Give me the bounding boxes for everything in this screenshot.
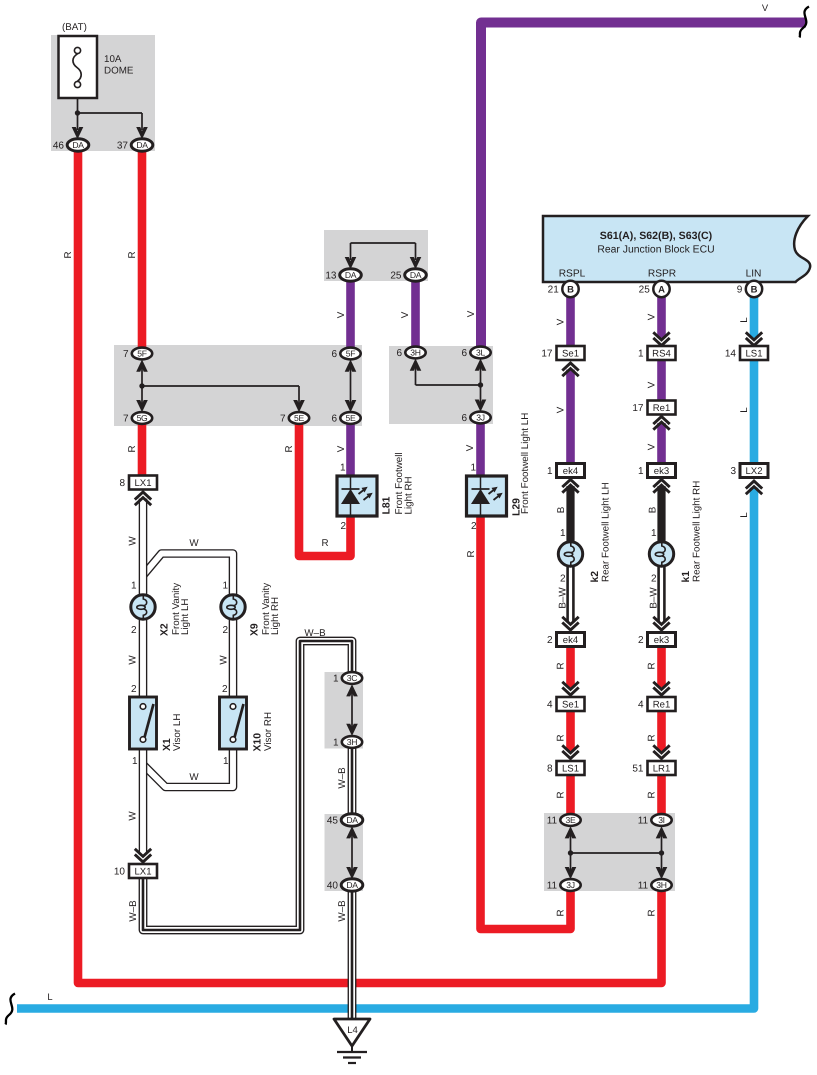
svg-text:W: W xyxy=(128,655,139,665)
svg-text:V: V xyxy=(465,444,476,451)
svg-text:1: 1 xyxy=(222,581,228,592)
svg-text:6: 6 xyxy=(397,348,403,359)
svg-text:W: W xyxy=(189,772,199,783)
svg-text:R: R xyxy=(556,662,567,669)
svg-text:Visor RH: Visor RH xyxy=(263,712,274,751)
svg-text:2: 2 xyxy=(651,574,657,585)
svg-text:V: V xyxy=(556,406,567,413)
svg-text:V: V xyxy=(647,313,658,320)
svg-text:11: 11 xyxy=(638,816,649,827)
svg-text:W–B: W–B xyxy=(337,767,348,789)
svg-text:R: R xyxy=(127,445,138,452)
svg-text:L: L xyxy=(739,317,750,323)
svg-text:3L: 3L xyxy=(476,348,485,358)
svg-text:3: 3 xyxy=(730,466,736,477)
svg-text:LS1: LS1 xyxy=(745,348,762,359)
svg-text:R: R xyxy=(647,791,658,798)
svg-text:DA: DA xyxy=(72,140,84,150)
svg-text:R: R xyxy=(647,909,658,916)
svg-text:1: 1 xyxy=(470,463,476,474)
svg-text:R: R xyxy=(127,251,138,258)
svg-text:46: 46 xyxy=(53,141,65,152)
svg-text:2: 2 xyxy=(222,684,228,695)
svg-text:1: 1 xyxy=(340,463,346,474)
svg-text:Se1: Se1 xyxy=(562,699,579,710)
svg-text:L81: L81 xyxy=(382,496,393,514)
svg-text:11: 11 xyxy=(638,881,649,892)
svg-text:1: 1 xyxy=(560,528,566,539)
svg-text:5E: 5E xyxy=(294,413,304,423)
svg-text:4: 4 xyxy=(638,700,644,711)
svg-text:LS1: LS1 xyxy=(562,763,579,774)
svg-text:Rear Footwell Light LH: Rear Footwell Light LH xyxy=(600,482,611,582)
svg-text:L: L xyxy=(47,991,52,1002)
svg-text:Rear Footwell Light RH: Rear Footwell Light RH xyxy=(691,481,702,582)
svg-text:LIN: LIN xyxy=(746,269,762,280)
svg-text:14: 14 xyxy=(725,349,737,360)
svg-text:X1: X1 xyxy=(162,738,173,751)
svg-text:R: R xyxy=(321,538,328,549)
svg-text:Light RH: Light RH xyxy=(404,476,415,514)
svg-text:B: B xyxy=(556,506,567,513)
svg-text:ek4: ek4 xyxy=(563,635,579,646)
svg-text:1: 1 xyxy=(547,466,553,477)
svg-text:17: 17 xyxy=(541,349,553,360)
svg-text:1: 1 xyxy=(333,674,339,685)
svg-text:V: V xyxy=(647,381,658,388)
svg-text:R: R xyxy=(284,445,295,452)
svg-text:DA: DA xyxy=(410,270,422,280)
svg-text:Front Footwell Light LH: Front Footwell Light LH xyxy=(520,413,531,514)
svg-text:ek3: ek3 xyxy=(654,466,669,477)
svg-text:DA: DA xyxy=(346,815,358,825)
svg-text:5G: 5G xyxy=(137,413,148,423)
svg-text:17: 17 xyxy=(632,403,644,414)
svg-text:W: W xyxy=(219,655,230,665)
svg-text:37: 37 xyxy=(117,141,129,152)
svg-text:B: B xyxy=(648,506,659,513)
svg-text:7: 7 xyxy=(123,414,129,425)
svg-text:9: 9 xyxy=(737,285,743,296)
svg-text:V: V xyxy=(647,443,658,450)
svg-text:B: B xyxy=(751,284,758,295)
svg-text:V: V xyxy=(336,445,347,452)
svg-text:W: W xyxy=(128,811,139,821)
svg-text:R: R xyxy=(466,550,477,557)
svg-text:B–W: B–W xyxy=(558,587,569,609)
svg-text:V: V xyxy=(762,2,769,13)
svg-text:5F: 5F xyxy=(137,349,146,359)
svg-text:X2: X2 xyxy=(159,623,170,636)
svg-text:W: W xyxy=(189,538,199,549)
svg-text:8: 8 xyxy=(547,764,553,775)
svg-text:2: 2 xyxy=(471,521,477,532)
svg-text:DA: DA xyxy=(345,270,357,280)
svg-text:3H: 3H xyxy=(410,348,420,358)
svg-text:1: 1 xyxy=(638,349,644,360)
svg-text:W: W xyxy=(128,536,139,546)
svg-text:(BAT): (BAT) xyxy=(62,22,87,33)
svg-text:1: 1 xyxy=(131,581,137,592)
svg-text:X9: X9 xyxy=(249,623,260,636)
svg-text:Rear Junction Block ECU: Rear Junction Block ECU xyxy=(597,245,714,256)
svg-text:1: 1 xyxy=(132,756,138,767)
svg-text:DA: DA xyxy=(136,140,148,150)
svg-text:3I: 3I xyxy=(658,815,665,825)
svg-text:1: 1 xyxy=(651,528,657,539)
svg-text:3E: 3E xyxy=(566,815,576,825)
svg-text:V: V xyxy=(556,318,567,325)
svg-text:R: R xyxy=(63,251,74,258)
svg-text:R: R xyxy=(647,662,658,669)
svg-text:DOME: DOME xyxy=(104,66,134,77)
svg-text:25: 25 xyxy=(390,271,402,282)
svg-text:RSPR: RSPR xyxy=(648,269,676,280)
svg-text:3J: 3J xyxy=(566,880,574,890)
svg-text:1: 1 xyxy=(223,756,229,767)
svg-text:B: B xyxy=(567,284,574,295)
svg-text:W–B: W–B xyxy=(128,900,139,922)
svg-text:R: R xyxy=(556,909,567,916)
svg-text:45: 45 xyxy=(327,816,339,827)
svg-text:Visor LH: Visor LH xyxy=(172,714,183,751)
svg-text:V: V xyxy=(466,310,477,317)
svg-text:LR1: LR1 xyxy=(653,763,671,774)
svg-text:Re1: Re1 xyxy=(653,403,671,414)
svg-text:W–B: W–B xyxy=(304,628,326,639)
svg-text:RSPL: RSPL xyxy=(559,269,586,280)
svg-text:1: 1 xyxy=(333,738,339,749)
svg-text:R: R xyxy=(556,734,567,741)
svg-text:2: 2 xyxy=(560,574,566,585)
svg-text:L: L xyxy=(739,407,750,413)
svg-text:LX1: LX1 xyxy=(134,478,151,489)
svg-text:3H: 3H xyxy=(656,880,666,890)
svg-text:LX2: LX2 xyxy=(745,466,762,477)
svg-text:11: 11 xyxy=(547,881,558,892)
svg-text:A: A xyxy=(658,284,665,295)
svg-text:R: R xyxy=(647,734,658,741)
svg-text:ek3: ek3 xyxy=(654,635,669,646)
svg-text:L4: L4 xyxy=(347,1025,358,1036)
svg-text:Se1: Se1 xyxy=(562,348,579,359)
svg-text:L: L xyxy=(739,512,750,518)
svg-text:V: V xyxy=(400,311,411,318)
svg-text:2: 2 xyxy=(340,521,346,532)
svg-text:3H: 3H xyxy=(347,737,357,747)
svg-text:21: 21 xyxy=(548,285,560,296)
svg-text:2: 2 xyxy=(547,635,553,646)
svg-text:LX1: LX1 xyxy=(134,866,151,877)
svg-text:5F: 5F xyxy=(346,349,355,359)
svg-text:6: 6 xyxy=(332,349,338,360)
svg-text:10: 10 xyxy=(114,867,126,878)
svg-text:1: 1 xyxy=(638,466,644,477)
svg-text:ek4: ek4 xyxy=(563,466,579,477)
svg-text:Re1: Re1 xyxy=(653,699,671,710)
svg-text:2: 2 xyxy=(222,625,228,636)
svg-text:51: 51 xyxy=(632,764,644,775)
svg-text:2: 2 xyxy=(131,684,137,695)
svg-text:13: 13 xyxy=(325,271,337,282)
svg-text:11: 11 xyxy=(547,816,558,827)
svg-text:S61(A), S62(B), S63(C): S61(A), S62(B), S63(C) xyxy=(600,230,712,242)
svg-text:2: 2 xyxy=(131,625,137,636)
svg-text:8: 8 xyxy=(119,478,125,489)
svg-text:RS4: RS4 xyxy=(652,348,671,359)
svg-text:3C: 3C xyxy=(347,673,357,683)
svg-text:25: 25 xyxy=(639,285,651,296)
svg-text:40: 40 xyxy=(327,881,339,892)
svg-text:10A: 10A xyxy=(104,54,122,65)
svg-text:6: 6 xyxy=(332,414,338,425)
svg-text:4: 4 xyxy=(547,700,553,711)
svg-text:X10: X10 xyxy=(252,733,263,752)
svg-text:7: 7 xyxy=(280,414,286,425)
svg-text:R: R xyxy=(556,791,567,798)
svg-text:6: 6 xyxy=(462,348,468,359)
svg-text:B–W: B–W xyxy=(649,587,660,609)
svg-text:Light RH: Light RH xyxy=(270,597,281,635)
svg-text:V: V xyxy=(336,311,347,318)
svg-text:6: 6 xyxy=(462,413,468,424)
svg-text:DA: DA xyxy=(346,880,358,890)
svg-text:5E: 5E xyxy=(346,413,356,423)
svg-text:Light LH: Light LH xyxy=(180,599,191,636)
svg-text:W–B: W–B xyxy=(337,900,348,922)
svg-text:3J: 3J xyxy=(476,413,484,423)
svg-text:7: 7 xyxy=(123,349,129,360)
svg-text:2: 2 xyxy=(638,635,644,646)
